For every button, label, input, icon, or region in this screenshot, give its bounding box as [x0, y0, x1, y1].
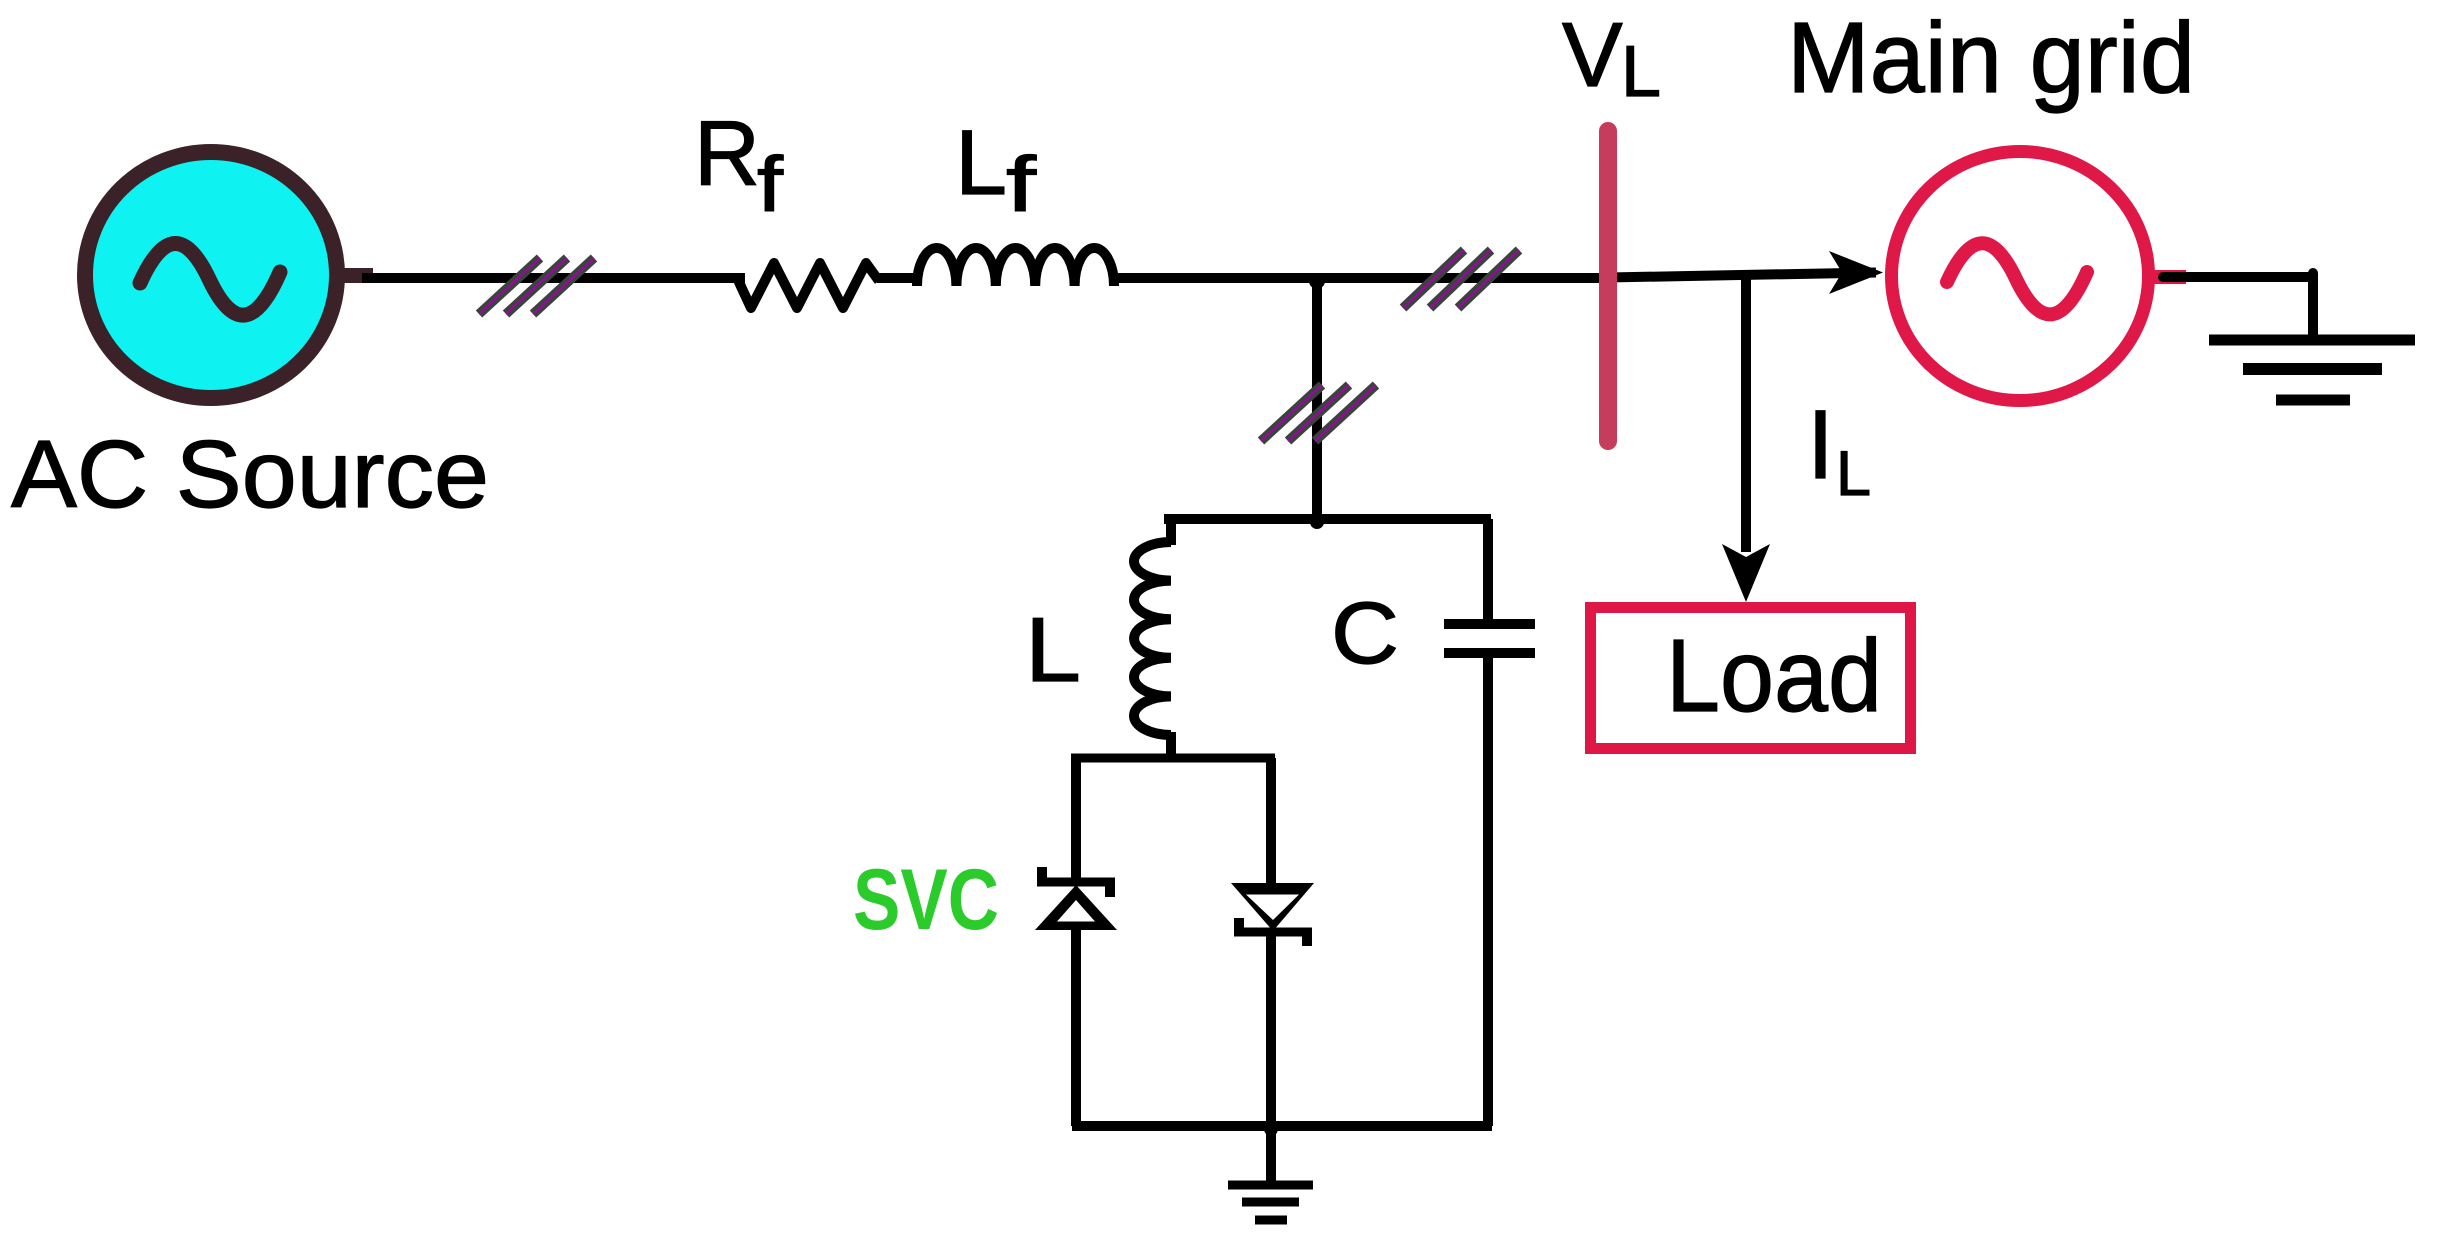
svg-text:Main grid: Main grid: [1787, 2, 2195, 114]
ground (main grid side): [2209, 340, 2415, 400]
Load box: [1591, 608, 1911, 749]
inductor Lf: [917, 248, 1114, 286]
inductor L (TCR reactor): [1134, 519, 1171, 758]
wire: SVC bottom bus: [1072, 1121, 1492, 1131]
bus bar VL: [1599, 131, 1617, 441]
svg-text:AC Source: AC Source: [11, 421, 489, 528]
node: junction on bottom bus: [1264, 1122, 1278, 1136]
three-phase slash marks (SVC branch): [1261, 385, 1376, 441]
svg-text:SVC: SVC: [853, 852, 999, 948]
three-phase slash marks (source side): [479, 258, 594, 314]
arrow: load current IL down to Load: [1741, 278, 1751, 552]
wire: resistor Rf to inductor Lf: [877, 273, 921, 283]
svg-text:R: R: [694, 103, 760, 205]
three-phase slash marks (line side): [1403, 250, 1519, 308]
wire: thyristor pair top bar: [1071, 754, 1275, 763]
svg-text:Load: Load: [1666, 618, 1882, 733]
svg-text:L: L: [955, 112, 1007, 214]
svg-text:f: f: [1006, 140, 1036, 228]
svg-text:f: f: [757, 140, 783, 228]
wire: LC parallel block top bar: [1164, 514, 1491, 524]
wire: inductor Lf to bus VL: [1110, 273, 1617, 283]
svg-text:L: L: [1836, 439, 1871, 509]
wire: bus VL to main grid (sloped arrow shaft): [1608, 273, 1876, 278]
wire: main grid to ground: [2163, 272, 2313, 282]
thyristor Q2 (right, cathode down, with gate hooks): [1231, 758, 1314, 1126]
AC source V1: [85, 152, 373, 398]
resistor Rf: [738, 263, 879, 308]
arrowhead into main grid: [1829, 251, 1883, 294]
node: junction on LC top bar: [1310, 515, 1324, 529]
svg-text:I: I: [1807, 390, 1834, 499]
capacitor C (with branch wires): [1444, 519, 1535, 1126]
node: PCC junction on main line: [1309, 273, 1325, 289]
ground (SVC side): [1228, 1126, 1313, 1220]
thyristor Q1 (left, cathode up, with gate hooks): [1035, 758, 1117, 1126]
main grid source: [1892, 152, 2187, 401]
wire: junction down to SVC block: [1312, 278, 1322, 519]
svg-text:C: C: [1331, 585, 1399, 682]
svg-text:L: L: [1025, 600, 1081, 701]
svg-text:L: L: [1621, 32, 1661, 112]
svg-text:V: V: [1562, 5, 1623, 106]
wire: source to resistor Rf: [362, 273, 745, 283]
